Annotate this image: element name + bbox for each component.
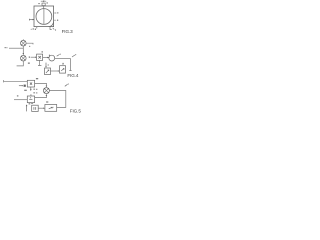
- box B4: [45, 105, 57, 112]
- pointer tick: [53, 28, 55, 30]
- oscillator box A: [60, 66, 66, 73]
- label 70: [17, 95, 19, 96]
- oscillator box B: [45, 68, 51, 75]
- svg-text:FIG.5: FIG.5: [70, 109, 82, 114]
- wire M3 output to box B4: [50, 91, 66, 108]
- wire corner down with foot: [69, 58, 71, 70]
- svg-text:FIG.3: FIG.3: [62, 29, 74, 34]
- bottom right stub wire: [50, 27, 52, 30]
- small block: [24, 85, 26, 87]
- label 62: [36, 78, 38, 79]
- inlet arrow left: [29, 19, 33, 21]
- input wire: [9, 47, 23, 49]
- pointer arrow label 50: [57, 55, 60, 57]
- label 14: [46, 2, 48, 3]
- label 10: [57, 12, 58, 13]
- mixer M1: [21, 40, 27, 46]
- label 12: [38, 3, 40, 4]
- top inlet arrow bar: [41, 0, 46, 2]
- label 48: [28, 63, 30, 64]
- box B1: [27, 80, 34, 87]
- box B4 glyph: [49, 107, 53, 109]
- arrowhead into M3 top: [46, 86, 48, 88]
- label 60: [48, 64, 49, 65]
- box B2: [27, 96, 34, 103]
- arrow into B1: [19, 85, 23, 87]
- arrowhead into M2: [23, 53, 25, 55]
- label 64: [24, 90, 27, 91]
- svg-text:FIG.4: FIG.4: [67, 73, 79, 78]
- oscillator glyph B: [46, 70, 49, 73]
- wire box to summer: [43, 57, 48, 59]
- wire B2 to mixer M3: [35, 95, 47, 98]
- wire B1 to mixer M3: [35, 83, 47, 86]
- mixer M2: [21, 55, 27, 61]
- input tick: [3, 80, 5, 82]
- label 76: [31, 103, 33, 104]
- right port dash upper: [54, 12, 56, 14]
- up arrow wire left of B3: [26, 106, 28, 112]
- rotor shaft line: [43, 9, 45, 25]
- box B2 glyph dot: [30, 97, 31, 98]
- multiplier box U1: [37, 54, 43, 60]
- label 18: [57, 20, 58, 21]
- stub above mixer M1: [22, 39, 24, 40]
- wire B to A with arrowhead: [51, 70, 59, 72]
- arrowhead into M3 bottom: [46, 94, 48, 96]
- wire M1 to M2: [22, 46, 24, 55]
- down arrow below B1: [30, 87, 32, 90]
- label 66: [33, 89, 37, 90]
- top inlet arrowhead: [43, 1, 45, 3]
- input wire into B2: [14, 99, 27, 101]
- plus marks: [48, 55, 50, 58]
- oscillator glyph A: [61, 68, 64, 71]
- label 54: [62, 63, 64, 65]
- label 30: [29, 46, 30, 47]
- wire B3 to B4: [38, 107, 44, 109]
- valve body box: [34, 6, 54, 27]
- label 16: [31, 28, 36, 30]
- label 78: [46, 101, 48, 102]
- pointer arrow label 52: [72, 55, 75, 57]
- mixer M3: [43, 88, 49, 94]
- label 44: [29, 56, 30, 58]
- arrow into multiplier box: [31, 56, 36, 58]
- bottom stub wire: [36, 27, 38, 29]
- valve stem wire: [43, 6, 45, 9]
- summer circle: [49, 55, 55, 61]
- pointer arrow label 72: [65, 84, 68, 86]
- rotor circle: [36, 9, 52, 25]
- input wire top: [4, 80, 28, 82]
- label above B2: [30, 94, 31, 97]
- box B3: [32, 105, 39, 111]
- label 74: [29, 103, 31, 104]
- valve stem box: [42, 3, 45, 6]
- wire M1 output right: [26, 43, 33, 44]
- label 34: [5, 47, 8, 48]
- corner arc outlet: [48, 21, 53, 26]
- right port dash lower: [54, 19, 55, 21]
- label 20: [55, 29, 56, 30]
- wire below M2: [17, 61, 24, 66]
- wire below box with foot: [38, 60, 41, 65]
- arrow into oscillator box B: [45, 63, 47, 67]
- label 46: [42, 51, 44, 52]
- wire summer to corner: [55, 57, 71, 59]
- label 68: [33, 92, 37, 93]
